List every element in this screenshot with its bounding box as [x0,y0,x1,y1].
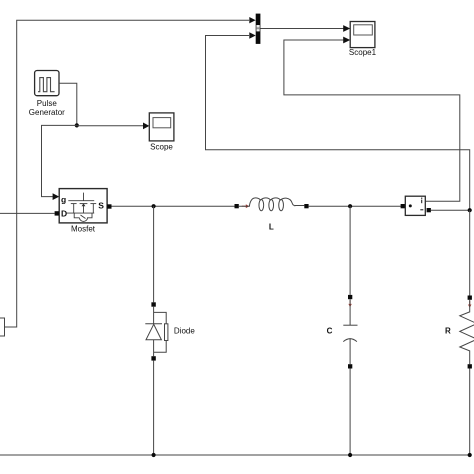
junction dot (capacitor-bus) [348,453,352,457]
red current direction arrow at R [468,301,471,308]
ground return bus [0,454,470,456]
wire: pulse generator output down to junction [59,83,77,125]
arrowhead into Scope1 input 1 [343,25,350,32]
current measurement right (-) port [427,208,431,212]
inductor L right port [304,204,308,208]
wire: junction at R node up and across to mux input 2 [206,36,470,211]
svg-text:g: g [61,194,66,204]
svg-text:Pulse: Pulse [37,99,58,108]
resistor zigzag [460,300,474,364]
junction dot (pulse signal) [75,123,79,127]
capacitor symbol [343,299,357,364]
resistor bottom port [468,364,472,368]
wire: from left edge to mosfet D input [0,212,55,214]
current measurement left (+) port [401,204,405,208]
wire: junction to Scope input [77,125,144,127]
diode bottom port [151,356,155,360]
wire: inductor to current measurement [309,205,401,207]
wire: resistor to ground bus [469,369,471,456]
capacitor bottom port [348,364,352,368]
svg-text:C: C [327,327,333,336]
capacitor top port [348,295,352,299]
red current direction arrow at C [348,300,351,307]
wire: junction down/left to mosfet gate [42,125,77,196]
wire: mux output to Scope1 input 1 [260,28,343,30]
junction dot (capacitor node) [348,204,352,208]
svg-text:R: R [445,327,451,336]
current measurement block [405,196,425,215]
diode symbol with snubber [145,307,168,357]
svg-text:Scope: Scope [150,143,173,152]
pulse generator block [29,71,65,117]
junction dot (R node) [468,208,472,212]
scope block Scope1 [349,22,377,58]
wire: source up left edge to mux input 1 [5,20,250,327]
wire: diode to ground bus [153,361,155,455]
arrowhead into Scope1 input 2 [343,37,350,44]
diode top port [151,302,155,306]
junction dot (diode-bus) [152,453,156,457]
wire: current measurement output to R node [431,209,470,211]
svg-text:Generator: Generator [29,108,65,117]
wire: current measurement i output up/across to Scope1 input 2 [284,40,460,201]
arrowhead into Scope [143,123,149,130]
inductor L left port [235,204,239,208]
wire: mosfet S to inductor (main rail) [112,205,235,207]
red current direction arrow at L [242,204,249,208]
wire: R branch down [469,210,471,295]
inductor L coil [239,198,304,211]
mosfet S output port [107,204,111,208]
junction dot (resistor-bus) [468,453,472,457]
dc voltage source (partially off-canvas, left edge) [0,318,5,336]
mosfet D input port [55,211,59,215]
wire: diode branch down [153,206,155,302]
scope block Scope [149,113,174,152]
wire: capacitor to ground bus [349,369,351,456]
svg-text:S: S [98,200,104,210]
svg-text:D: D [61,209,67,219]
mux (black bar) [256,14,261,44]
wire: capacitor branch down [349,206,351,295]
svg-text:Diode: Diode [174,326,195,335]
mosfet block U1 [59,189,107,234]
svg-text:Scope1: Scope1 [349,48,377,57]
resistor top port [468,296,472,300]
junction dot (diode node) [152,204,156,208]
arrowhead into mosfet g input [53,193,60,200]
arrowhead into mux input 1 [249,17,255,23]
svg-text:L: L [269,222,274,231]
svg-text:Mosfet: Mosfet [71,225,96,234]
arrowhead into mux input 2 [249,32,255,38]
